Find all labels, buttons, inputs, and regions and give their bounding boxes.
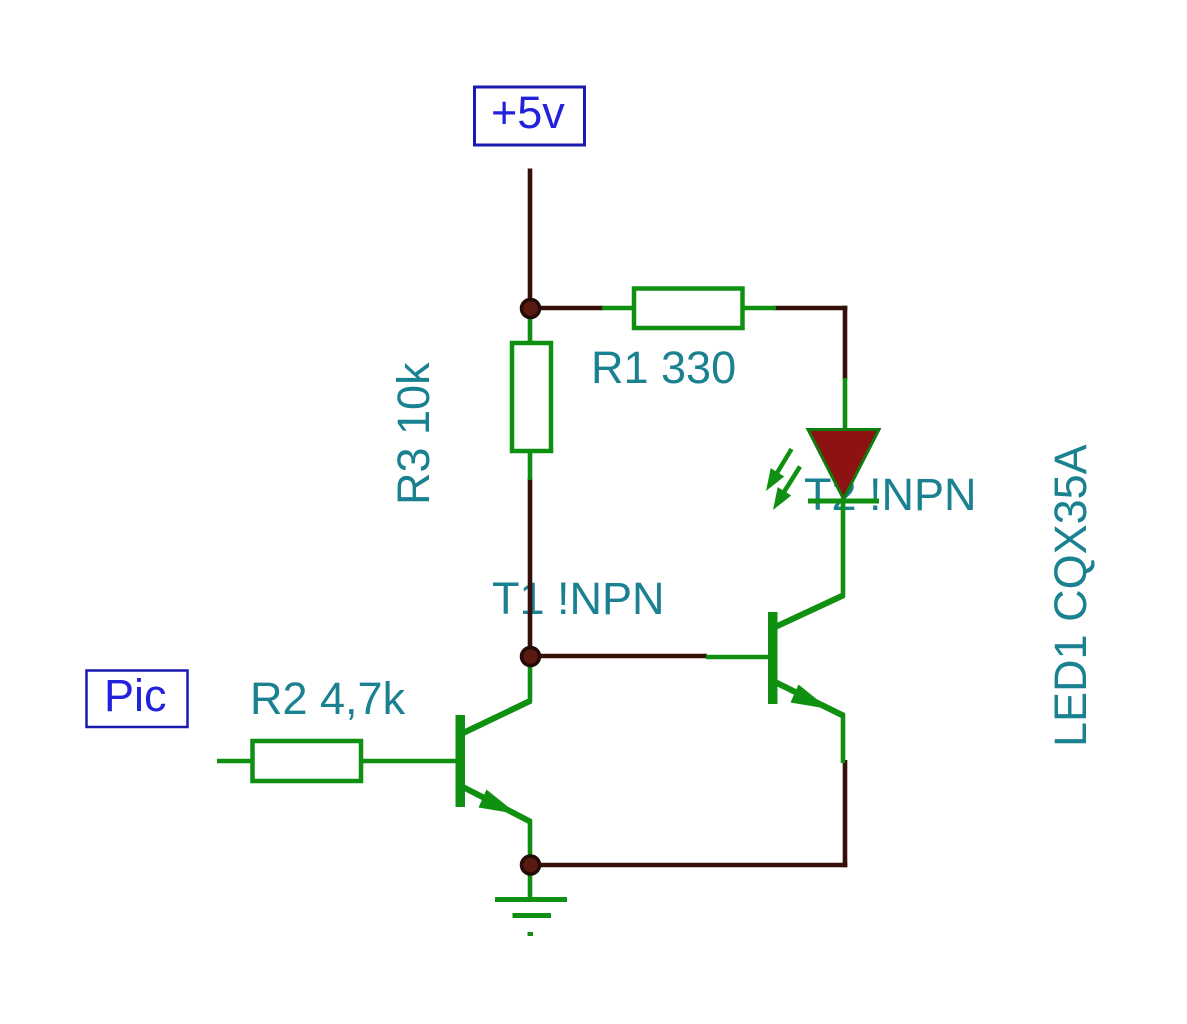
svg-text:T1 !NPN: T1 !NPN [492, 573, 665, 624]
LED1 cathode bar [808, 499, 879, 504]
svg-text:R3 10k: R3 10k [388, 362, 439, 505]
wire pin LED1 anode (green) [843, 378, 848, 431]
svg-text:R2 4,7k: R2 4,7k [250, 673, 406, 724]
wire LED1 cathode to T2 collector (green) [841, 500, 846, 597]
transistor T1 collector diagonal [461, 701, 531, 735]
LED1 triangle [808, 430, 879, 500]
svg-text:R1 330: R1 330 [591, 342, 736, 393]
wire T1 emitter down to node C (green) [528, 820, 533, 867]
transistor T1 base bar [456, 715, 466, 807]
wire +5v vertical down to node A [528, 169, 533, 311]
junction node C [522, 856, 540, 874]
wire node A to R1 left [528, 306, 603, 311]
wire pin R1 right (green) [742, 306, 776, 311]
wire pin R3 top (green) [528, 306, 533, 344]
resistor R2 body [253, 741, 362, 781]
svg-text:LED1 CQX35A: LED1 CQX35A [1045, 444, 1096, 747]
transistor T1 emitter diagonal [461, 786, 531, 822]
LED1 light arrow 1 shaft [777, 449, 792, 473]
wire bottom right corner up to T2 emitter pin [843, 760, 848, 867]
wire node B to T2 base [528, 654, 707, 659]
wire corner down to LED anode pin [843, 306, 848, 380]
wire T2 emitter down (green) [841, 714, 846, 763]
wire node C to ground (green) [528, 866, 533, 900]
wire R1 right to corner [774, 306, 847, 311]
svg-text:+5v: +5v [491, 87, 565, 138]
transistor T2 collector diagonal [773, 595, 844, 628]
LED1 light arrow 1 head [766, 468, 784, 491]
transistor T2 emitter arrowhead [791, 685, 830, 710]
wire pin R2 left (green) [217, 759, 253, 764]
wire pin T2 base (green) [706, 655, 769, 660]
wire R3 bottom to node B [528, 478, 533, 658]
wire T1 collector up to node B (green) [528, 664, 533, 702]
resistor R3 body [512, 343, 551, 451]
transistor T1 emitter arrowhead [479, 790, 518, 815]
transistor T2 base bar [768, 612, 778, 704]
svg-text:Pic: Pic [104, 670, 167, 721]
net label +5v box [475, 87, 585, 145]
junction node B [522, 648, 540, 666]
svg-text:T2 !NPN: T2 !NPN [804, 469, 977, 520]
wire pin R1 left (green) [602, 306, 636, 311]
LED1 light arrow 2 head [773, 487, 791, 510]
net label Pic box [87, 671, 188, 728]
junction node A [522, 300, 540, 318]
wire pin R3 bottom (green) [528, 450, 533, 480]
resistor R1 body [634, 289, 743, 329]
LED1 light arrow 2 shaft [784, 467, 800, 493]
ground symbol [495, 900, 567, 935]
transistor T2 emitter diagonal [773, 681, 844, 716]
wire pin R2 right to T1 base (green) [360, 759, 457, 764]
wire node C to bottom right corner [529, 863, 847, 868]
